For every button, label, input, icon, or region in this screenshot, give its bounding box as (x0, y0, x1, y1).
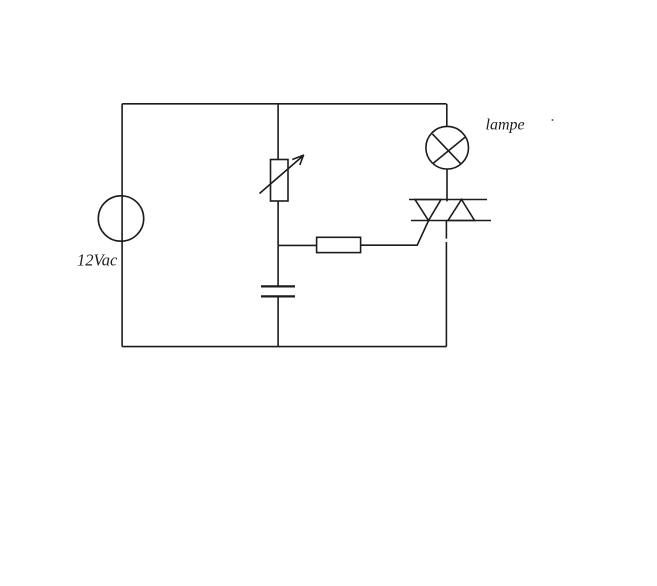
wire left vertical (121, 104, 123, 347)
triac right triangle (448, 200, 475, 221)
svg-text:12Vac: 12Vac (77, 251, 118, 270)
svg-text:lampe: lampe (486, 117, 525, 134)
wire top right corner to lamp (446, 104, 448, 127)
wire bottom horizontal (122, 346, 446, 348)
capacitor plates (261, 286, 295, 296)
triac left triangle (415, 200, 441, 221)
wire middle branch upper (277, 104, 279, 160)
triac MT1 bar (411, 220, 491, 222)
variable resistor body (271, 160, 289, 202)
wire resistor to triac gate (361, 221, 429, 246)
wire top horizontal (122, 103, 446, 105)
ac source 12Vac (98, 196, 143, 241)
resistor body (317, 237, 361, 252)
lamp (426, 126, 469, 169)
wire middle branch mid (277, 201, 279, 286)
wire lamp to triac (446, 169, 448, 202)
stray ink dot (552, 119, 554, 121)
wire capacitor to bottom (277, 296, 279, 346)
variable resistor arrow (260, 155, 305, 194)
triac MT2 bar (409, 199, 487, 201)
wire junction to resistor (278, 244, 317, 246)
wire triac to bottom with gap (445, 221, 447, 347)
